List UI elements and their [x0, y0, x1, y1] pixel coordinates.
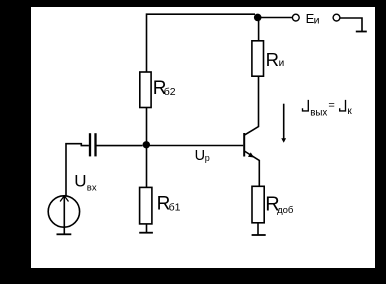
- svg-text:вых: вых: [310, 107, 327, 118]
- svg-text:и: и: [279, 58, 285, 69]
- svg-text:доб: доб: [277, 205, 294, 216]
- svg-text:б1: б1: [169, 202, 181, 214]
- svg-text:р: р: [205, 153, 210, 163]
- svg-text:U: U: [195, 148, 205, 164]
- svg-text:к: к: [347, 106, 352, 117]
- svg-text:б2: б2: [164, 86, 176, 98]
- svg-text:R: R: [266, 49, 279, 70]
- svg-text:=: =: [328, 100, 334, 112]
- svg-text:и: и: [314, 15, 320, 27]
- svg-text:U: U: [74, 172, 86, 191]
- svg-text:вх: вх: [87, 182, 97, 193]
